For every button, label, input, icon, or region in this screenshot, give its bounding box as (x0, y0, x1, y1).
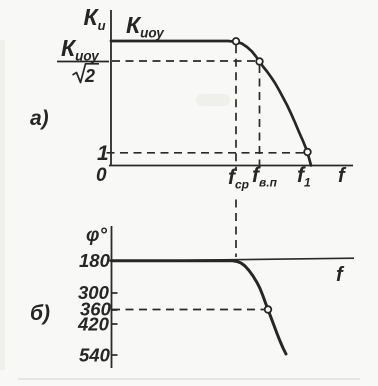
marker at f_v.p (256, 58, 263, 65)
phase curve phi(f) (111, 261, 286, 354)
svg-text:1: 1 (97, 142, 109, 165)
radical sign of sqrt2 (73, 64, 100, 83)
tick 420 (111, 323, 118, 325)
top plot: x-axis f (109, 165, 353, 167)
gain curve K_UOY(f) (111, 41, 311, 166)
dashed level 1 (107, 152, 305, 154)
svg-text:б): б) (30, 302, 50, 325)
dashed level 360 (112, 309, 265, 311)
svg-text:420: 420 (77, 314, 110, 335)
marker at f_1 (304, 149, 311, 156)
marker at 360 crossing (265, 306, 272, 313)
dashed vertical at f_cp (235, 45, 237, 171)
svg-text:φ°: φ° (86, 225, 107, 246)
scan smudge faint patch (196, 94, 230, 106)
svg-text:а): а) (30, 107, 49, 130)
fraction bar (57, 61, 109, 63)
svg-text:0: 0 (96, 165, 107, 186)
bottom plot: y-axis phi (111, 226, 113, 368)
svg-text:2: 2 (84, 66, 95, 86)
svg-text:540: 540 (79, 345, 111, 366)
tick 300 (111, 292, 118, 294)
svg-text:180: 180 (79, 250, 111, 271)
scan smudge left edge (0, 40, 5, 370)
bottom plot: f axis at 180 level (111, 258, 354, 261)
scan smudge bottom (18, 378, 360, 380)
tick 360 (111, 309, 118, 311)
dashed vertical at f_v.p (259, 65, 261, 171)
tick 540 (111, 354, 118, 356)
dashed level K_UOY/sqrt2 (112, 60, 256, 62)
marker at f_cp (233, 38, 240, 45)
top plot: y-axis K_U (110, 10, 112, 166)
dashed vertical connector between plots (235, 200, 237, 258)
